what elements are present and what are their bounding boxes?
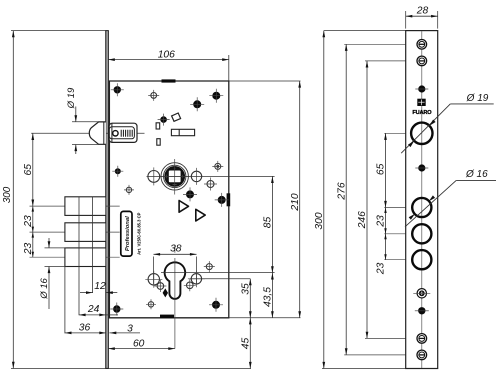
faceplate front view — [406, 31, 438, 369]
svg-text:65: 65 — [23, 164, 34, 176]
rivet top-left — [114, 86, 121, 93]
dimension 65 right — [385, 133, 387, 207]
svg-text:FUARO: FUARO — [412, 110, 432, 116]
bolt center line 1 — [30, 205, 120, 207]
extension line top right view — [324, 30, 406, 32]
svg-text:Ø 16: Ø 16 — [465, 169, 488, 180]
screw extension line 2 — [365, 60, 430, 62]
bolt tip extension — [64, 267, 66, 334]
svg-text:45: 45 — [241, 338, 252, 350]
bolt guide line b — [92, 197, 94, 293]
svg-text:23: 23 — [376, 215, 387, 228]
dimension 35 — [249, 279, 251, 318]
dimension diameter 16 — [48, 238, 50, 248]
screw extension line 1 — [344, 43, 430, 45]
rivet center-upper — [160, 116, 167, 123]
dimension 300 left — [12, 31, 14, 369]
screw hole left-mid2 — [126, 187, 131, 192]
svg-text:85: 85 — [263, 217, 274, 229]
rivet mid-a — [186, 190, 194, 198]
screw extension line 3 — [365, 337, 430, 339]
svg-text:Ø 16: Ø 16 — [39, 277, 50, 299]
tilted square detail — [172, 113, 181, 121]
pin hole upper-right — [215, 163, 221, 169]
deadbolt pin 2 — [65, 223, 106, 242]
case top extension right — [229, 80, 301, 82]
screw hole right-lower — [206, 264, 212, 270]
slide slot detail — [171, 129, 194, 135]
rivet dot upper — [418, 85, 425, 92]
svg-text:300: 300 — [314, 212, 325, 229]
dimension 23 right lower — [385, 234, 387, 260]
svg-text:43,5: 43,5 — [263, 287, 274, 307]
hole extension line d19 — [384, 132, 433, 134]
dimension 43,5 — [271, 273, 273, 318]
small hole left of cylinder — [157, 283, 164, 290]
faceplate center line — [421, 31, 423, 368]
svg-text:12: 12 — [94, 281, 106, 292]
faceplate screw 3 — [417, 334, 427, 344]
bolt center line 2 — [30, 231, 120, 233]
dimension 3 — [109, 332, 140, 334]
case top mounting tab — [162, 79, 176, 82]
svg-text:28: 28 — [416, 6, 429, 17]
hole extension 35 — [190, 278, 250, 280]
dimension 45 — [249, 318, 251, 369]
handle screw hole right — [191, 171, 201, 181]
hole extension line d16-2 — [384, 233, 432, 235]
rivet left-mid — [115, 168, 121, 174]
rivet dot middle — [418, 164, 425, 171]
svg-text:300: 300 — [2, 186, 13, 203]
extension line bottom left — [11, 368, 251, 370]
dimension 36 — [65, 332, 106, 334]
extension line top left — [11, 30, 106, 32]
dimension 106 — [228, 55, 230, 81]
faceplate edge view — [105, 31, 107, 369]
follower hub — [161, 163, 188, 190]
cylinder vertical center line — [174, 245, 176, 253]
Professional label — [121, 211, 132, 256]
svg-text:24: 24 — [87, 304, 100, 315]
svg-text:Professional: Professional — [125, 216, 131, 251]
dimension 12 — [80, 292, 93, 294]
latch head — [89, 122, 106, 144]
handle screw hole left — [148, 171, 160, 183]
extension line bottom right view — [322, 368, 406, 370]
rivet bottom-left — [113, 305, 120, 312]
svg-text:23: 23 — [376, 262, 387, 275]
svg-text:246: 246 — [357, 211, 368, 229]
rivet upper-right — [212, 92, 220, 100]
screw hole bottom-mid — [148, 302, 153, 307]
dimension 246 — [366, 61, 368, 339]
latch hole d19 — [411, 123, 432, 144]
rivet bottom-right — [212, 301, 220, 309]
svg-text:23: 23 — [23, 243, 34, 256]
deadbolt pin 1 — [65, 197, 106, 216]
dimension diameter 19 latch — [75, 107, 77, 122]
latch center line — [31, 132, 144, 134]
dimension 24 — [79, 314, 106, 316]
lock case outline — [109, 81, 228, 318]
pointer mark — [163, 288, 168, 297]
detent mark a — [179, 201, 188, 213]
euro cylinder hole — [165, 262, 186, 299]
svg-text:Ø 19: Ø 19 — [466, 93, 489, 104]
bolt hole d16-1 — [412, 198, 431, 217]
rivet mid-b — [218, 196, 226, 204]
dimension 60 — [108, 348, 175, 350]
latch bolt body — [109, 123, 137, 142]
FUARO logo mark — [417, 99, 425, 106]
rivet upper-middle — [193, 100, 201, 108]
svg-text:210: 210 — [290, 193, 301, 211]
bolt center line 3 — [30, 256, 120, 258]
case bottom mounting tab — [160, 315, 174, 319]
screw hole mid-right — [207, 181, 214, 188]
dimension 276 — [345, 44, 347, 355]
cylinder horizontal center line — [161, 272, 275, 274]
faceplate screw 5 — [417, 289, 426, 298]
small rect detail b — [157, 139, 160, 146]
svg-text:60: 60 — [133, 338, 145, 349]
dimension 65-23-23 left — [32, 133, 34, 257]
bolt hole d16-2 — [412, 224, 431, 243]
faceplate screw 2 — [417, 56, 427, 66]
case bottom extension right — [229, 317, 301, 319]
leader diameter 16 — [405, 180, 456, 226]
svg-text:65: 65 — [376, 163, 387, 175]
latch head bottom extension — [72, 144, 106, 146]
svg-text:23: 23 — [23, 215, 34, 228]
deadbolt pin 3 — [65, 248, 106, 267]
svg-text:35: 35 — [241, 283, 252, 295]
svg-text:38: 38 — [170, 243, 182, 254]
svg-text:276: 276 — [336, 182, 347, 200]
cylinder screw hole right — [191, 274, 201, 284]
svg-text:Ø 19: Ø 19 — [66, 87, 77, 109]
follower extension line right — [147, 175, 275, 177]
rivet dot lower — [418, 307, 425, 314]
dimension 23 right upper — [385, 208, 387, 234]
latch head top extension — [72, 121, 106, 123]
dimension 210 — [299, 81, 301, 318]
small hole right of cylinder — [187, 282, 194, 289]
svg-text:106: 106 — [158, 49, 175, 60]
dimension 28 — [405, 11, 407, 29]
bolt hole d16-3 — [412, 250, 431, 269]
faceplate screw 4 — [417, 350, 427, 360]
bolt guide line a — [78, 197, 80, 315]
svg-text:3: 3 — [127, 324, 133, 335]
detent mark b — [196, 209, 205, 221]
screw hole upper-left — [151, 93, 157, 99]
case right edge tab — [227, 193, 231, 206]
hole extension line d16-1 — [384, 207, 432, 209]
dimension 300 right — [323, 31, 325, 369]
cylinder screw hole left — [148, 274, 159, 285]
small rect detail a — [156, 123, 160, 129]
dimension 85 — [271, 176, 273, 273]
svg-text:Art. V25/C-60.85.3 CP: Art. V25/C-60.85.3 CP — [136, 212, 141, 255]
screw extension line 4 — [344, 354, 430, 356]
leader diameter 19 — [401, 104, 450, 153]
faceplate screw 1 — [417, 40, 427, 50]
dimension 38 — [154, 253, 197, 255]
svg-text:36: 36 — [79, 323, 91, 334]
hole extension line d16-3 — [384, 259, 432, 261]
